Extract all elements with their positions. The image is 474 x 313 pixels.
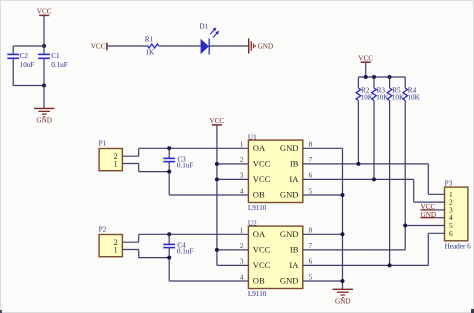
wire: [404, 77, 406, 88]
wire: [303, 147, 343, 149]
capacitor C4: [163, 244, 175, 247]
value L9110: [248, 290, 267, 298]
wire R5 column: [389, 101, 391, 266]
wire: [168, 248, 170, 281]
value 1K: [145, 48, 155, 56]
wire: [427, 164, 429, 194]
svg-text:R1: R1: [145, 36, 154, 44]
svg-text:1: 1: [114, 245, 118, 254]
svg-text:2: 2: [240, 242, 244, 250]
svg-text:VCC: VCC: [253, 158, 271, 168]
label D1: [199, 22, 208, 30]
svg-text:1: 1: [240, 227, 244, 235]
power VCC (LED row): [91, 42, 107, 50]
label R3: [377, 86, 386, 94]
wire: [12, 58, 14, 85]
svg-text:C2: C2: [20, 52, 29, 60]
svg-text:7: 7: [309, 242, 313, 250]
node GND-U1pin5 junction: [341, 193, 345, 197]
pin 5 (P3): [449, 221, 453, 230]
label C4: [177, 242, 186, 250]
node C3 top junction: [167, 146, 171, 150]
wire U2 IB net: [303, 249, 405, 251]
label R1: [145, 36, 154, 44]
value L9110: [248, 204, 267, 212]
svg-text:GND: GND: [258, 43, 274, 51]
pin 8 (U1): [309, 141, 313, 149]
wire: [435, 217, 444, 219]
wire: [217, 264, 249, 266]
svg-text:1: 1: [114, 159, 118, 168]
wire: [122, 241, 138, 243]
wire: [169, 280, 248, 282]
wire: [168, 148, 170, 158]
wire R2 column: [357, 101, 359, 164]
capacitor C3: [163, 158, 175, 161]
value 0.1uF: [51, 61, 68, 69]
ground GND (driver): [333, 289, 353, 305]
svg-text:U2: U2: [248, 219, 257, 227]
wire: [139, 233, 249, 235]
wire: [365, 62, 367, 77]
connector P3 Header 6: [445, 187, 468, 241]
power VCC (pull-up bank): [358, 54, 373, 62]
pin 2 (P2): [114, 238, 118, 247]
svg-text:5: 5: [309, 187, 313, 195]
node R5-IA2 junction: [388, 263, 392, 267]
value Header 6: [445, 242, 472, 250]
svg-text:IA: IA: [289, 260, 299, 270]
value 10uF: [20, 61, 35, 69]
value 10K: [376, 93, 389, 101]
svg-text:P1: P1: [99, 140, 107, 148]
pin 5 (U2): [309, 273, 313, 281]
corner mark: [0, 310, 2, 313]
svg-text:0.1uF: 0.1uF: [51, 61, 68, 69]
resistor R3: [372, 88, 377, 101]
pin 1 (P2): [114, 245, 118, 254]
node R3-bus junction: [372, 75, 376, 79]
svg-text:6: 6: [309, 258, 313, 266]
wire: [159, 45, 201, 47]
value 0.1uF: [177, 162, 194, 170]
svg-text:P2: P2: [99, 226, 107, 234]
svg-text:10K: 10K: [361, 93, 374, 101]
svg-text:GND: GND: [280, 190, 299, 200]
label P1: [99, 140, 107, 148]
pin 6 (U2): [309, 258, 313, 266]
corner mark: [471, 309, 474, 313]
wire: [43, 58, 45, 85]
label R4: [408, 86, 417, 94]
IC U2 L9110: [248, 226, 302, 288]
svg-text:P3: P3: [445, 179, 453, 187]
svg-text:1K: 1K: [145, 48, 155, 56]
wire bus: [358, 76, 405, 78]
capacitor C1: [38, 54, 50, 58]
wire: [122, 163, 138, 165]
wire U2 IA net: [303, 264, 429, 266]
svg-text:VCC: VCC: [253, 244, 271, 254]
pin 2 (U2): [240, 242, 244, 250]
wire: [139, 171, 170, 173]
wire: [43, 46, 45, 54]
ground GND label (P3 pin4): [420, 211, 436, 219]
svg-text:IB: IB: [290, 244, 299, 254]
svg-text:L9110: L9110: [248, 204, 267, 212]
wire: [168, 234, 170, 244]
svg-text:8: 8: [309, 227, 313, 235]
pin 3 (U1): [240, 172, 244, 180]
value 10K: [361, 93, 374, 101]
node C3 bottom junction: [167, 170, 171, 174]
node cap-bank top junction: [42, 44, 46, 48]
svg-text:C1: C1: [51, 52, 60, 60]
node cap-bank bottom junction: [42, 84, 46, 88]
node R5-bus junction: [388, 75, 392, 79]
label P2: [99, 226, 107, 234]
wire U1 IB net: [303, 163, 429, 165]
pin 3 (P3): [449, 205, 453, 214]
wire: [43, 86, 45, 109]
connector P1: [99, 149, 122, 171]
power VCC (driver rail): [210, 117, 225, 125]
node VCC-U1pin2 junction: [215, 162, 219, 166]
value 0.1uF: [177, 248, 194, 256]
resistor R4: [403, 88, 408, 101]
svg-text:7: 7: [309, 156, 313, 164]
pin 2 (P1): [114, 152, 118, 161]
node VCC-U1pin3 junction: [215, 177, 219, 181]
svg-text:2: 2: [240, 156, 244, 164]
label C2: [20, 52, 29, 60]
wire: [373, 77, 375, 88]
pin 1 (U2): [240, 227, 244, 235]
wire VCC rail: [216, 125, 218, 266]
svg-text:6: 6: [309, 172, 313, 180]
wire: [209, 45, 248, 47]
svg-text:10uF: 10uF: [20, 61, 35, 69]
wire: [414, 201, 445, 203]
svg-text:GND: GND: [335, 298, 351, 306]
wire: [427, 233, 429, 265]
svg-text:0.1uF: 0.1uF: [177, 248, 194, 256]
pin 1 (P3): [449, 190, 453, 199]
svg-text:OB: OB: [253, 190, 265, 200]
svg-text:GND: GND: [36, 117, 52, 125]
svg-text:10K: 10K: [407, 93, 420, 101]
svg-text:10K: 10K: [376, 93, 389, 101]
node R4-P3pin5 junction: [403, 224, 407, 228]
wire GND column: [342, 148, 344, 289]
pin 6 (U1): [309, 172, 313, 180]
power VCC (cap bank): [37, 8, 52, 16]
label R2: [361, 86, 370, 94]
svg-text:VCC: VCC: [91, 42, 106, 50]
wire: [303, 194, 343, 196]
wire: [139, 257, 170, 259]
wire: [389, 77, 391, 88]
pin 4 (U2): [240, 273, 244, 281]
wire: [428, 232, 444, 234]
label U1: [248, 133, 257, 141]
svg-text:3: 3: [240, 172, 244, 180]
wire: [405, 225, 444, 227]
wire: [217, 249, 249, 251]
wire: [122, 249, 138, 251]
svg-text:10K: 10K: [392, 93, 405, 101]
ground GND (cap bank): [34, 108, 54, 124]
power VCC label (P3 pin3): [420, 203, 435, 211]
pin 2 (U1): [240, 156, 244, 164]
svg-text:5: 5: [309, 273, 313, 281]
pin 5 (U1): [309, 187, 313, 195]
connector P2: [99, 235, 122, 257]
wire: [169, 194, 248, 196]
svg-text:1: 1: [240, 141, 244, 149]
node VCC-bus junction: [364, 75, 368, 79]
pin 3 (U2): [240, 258, 244, 266]
svg-text:OB: OB: [253, 276, 265, 286]
wire: [138, 164, 140, 172]
wire: [217, 163, 249, 165]
label C3: [177, 156, 186, 164]
wire: [435, 209, 444, 211]
ground GND (LED row): [249, 38, 273, 53]
resistor R1: [148, 44, 159, 48]
wire: [303, 280, 343, 282]
wire: [413, 179, 415, 202]
wire: [122, 155, 138, 157]
wire: [12, 46, 14, 54]
svg-text:0.1uF: 0.1uF: [177, 162, 194, 170]
wire: [138, 250, 140, 258]
node R2-IB junction: [356, 162, 360, 166]
node GND-U2pin8 junction: [341, 232, 345, 236]
IC U1 L9110: [248, 140, 302, 202]
svg-text:Header 6: Header 6: [445, 242, 472, 250]
pin 8 (U2): [309, 227, 313, 235]
svg-text:VCC: VCC: [253, 174, 271, 184]
svg-text:3: 3: [240, 258, 244, 266]
svg-text:GND: GND: [280, 276, 299, 286]
label R5: [392, 86, 401, 94]
svg-text:OA: OA: [253, 229, 266, 239]
resistor R2: [356, 88, 361, 101]
wire: [217, 178, 249, 180]
svg-text:VCC: VCC: [37, 8, 52, 16]
capacitor C2: [7, 54, 19, 58]
value 10K: [407, 93, 420, 101]
svg-text:IA: IA: [289, 174, 299, 184]
wire: [138, 148, 140, 156]
wire U1 IA net: [303, 178, 414, 180]
svg-text:GND: GND: [280, 229, 299, 239]
wire: [138, 234, 140, 242]
wire: [43, 15, 45, 46]
node C4 top junction: [167, 232, 171, 236]
wire: [428, 193, 444, 195]
wire R4 column: [404, 101, 406, 250]
svg-text:GND: GND: [280, 143, 299, 153]
svg-text:4: 4: [240, 273, 244, 281]
wire: [13, 45, 44, 47]
svg-text:U1: U1: [248, 133, 257, 141]
wire: [13, 85, 44, 87]
wire: [357, 77, 359, 88]
pin 6 (P3): [449, 229, 453, 238]
resistor R5: [387, 88, 392, 101]
pin 4 (P3): [449, 213, 453, 222]
label C1: [51, 52, 60, 60]
pin 2 (P3): [449, 198, 453, 207]
wire: [168, 162, 170, 195]
svg-text:D1: D1: [199, 22, 208, 30]
label P3: [445, 179, 453, 187]
pin 7 (U2): [309, 242, 313, 250]
svg-text:OA: OA: [253, 143, 266, 153]
node GND-U2pin5 junction: [341, 279, 345, 283]
wire: [139, 147, 249, 149]
wire: [303, 233, 343, 235]
wire R3 column: [373, 101, 375, 180]
svg-text:VCC: VCC: [210, 117, 225, 125]
svg-text:VCC: VCC: [253, 260, 271, 270]
pin 4 (U1): [240, 187, 244, 195]
label U2: [248, 219, 257, 227]
svg-text:VCC: VCC: [358, 54, 373, 62]
svg-text:L9110: L9110: [248, 290, 267, 298]
value 10K: [392, 93, 405, 101]
node VCC-U2pin2 junction: [215, 248, 219, 252]
pin 1 (P1): [114, 159, 118, 168]
svg-text:6: 6: [449, 229, 453, 238]
node R3-IA junction: [372, 177, 376, 181]
svg-text:IB: IB: [290, 158, 299, 168]
pin 1 (U1): [240, 141, 244, 149]
svg-text:8: 8: [309, 141, 313, 149]
LED D1: [201, 27, 220, 54]
wire: [107, 45, 149, 47]
node C4 bottom junction: [167, 256, 171, 260]
svg-text:4: 4: [240, 187, 244, 195]
pin 7 (U1): [309, 156, 313, 164]
